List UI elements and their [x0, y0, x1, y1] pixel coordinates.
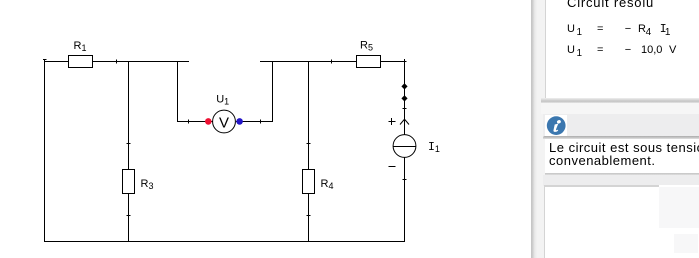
band below panel [541, 103, 699, 114]
wire R4 branch vertical [308, 61, 310, 242]
node tick source bottom lead [403, 179, 407, 181]
voltmeter U1 circle [213, 110, 236, 133]
info icon white square [545, 115, 567, 136]
wire right vertical lower (from source) [404, 157, 406, 241]
sidebar splitter shadow [531, 0, 537, 258]
info icon blue circle [546, 116, 567, 136]
band below info area [543, 175, 699, 186]
wire voltmeter branch right vertical [272, 61, 274, 122]
wire right vertical upper (to source) [404, 61, 406, 135]
node diamond lower on right wire [401, 95, 407, 101]
current source I1 circle [393, 135, 416, 158]
circuit schematic canvas [0, 0, 531, 258]
node tick voltmeter left lead [188, 120, 190, 124]
node tick source top lead [403, 108, 407, 110]
node tick voltmeter right lead [260, 120, 262, 124]
panel title [567, 0, 654, 10]
wire top-left horizontal (node A) [44, 61, 189, 63]
node tick on top-right wire [331, 60, 333, 64]
node tick corner top-left [44, 59, 46, 64]
info icon bar [543, 114, 699, 137]
voltmeter blue terminal dot [236, 118, 243, 125]
node tick R4 bottom lead [307, 215, 311, 217]
current source plus sign [389, 118, 396, 125]
wire voltmeter right horizontal [236, 121, 273, 123]
info text line 2 [549, 154, 656, 167]
current source arrow up [400, 119, 409, 124]
node diamond upper on right wire [401, 83, 407, 89]
node tick corner top-left crossbar [43, 59, 47, 61]
resistor R4 body [303, 170, 315, 194]
wire voltmeter left horizontal [177, 121, 213, 123]
sidebar formula panel [545, 0, 699, 99]
current source I1 bar [393, 146, 416, 148]
info text area [545, 139, 699, 173]
resistor R1 body [69, 56, 93, 68]
node tick R4 top lead [307, 143, 311, 145]
border under info text [545, 173, 699, 175]
wire top-right horizontal (node B) [260, 61, 407, 63]
panel bottom etched edge [541, 98, 699, 103]
info text line 1 [549, 141, 699, 154]
sidebar gutter background [537, 0, 545, 258]
node tick R3 top lead [127, 143, 131, 145]
wire R3 branch vertical [128, 61, 130, 242]
wire voltmeter branch left vertical [177, 61, 179, 122]
gray area right of white box [659, 187, 699, 228]
wire left vertical [44, 61, 46, 242]
divider under icon bar [543, 136, 699, 139]
current source minus sign [389, 166, 396, 168]
bottom white box [544, 185, 699, 258]
node tick R3 bottom lead [127, 215, 131, 217]
bottom white box top border [544, 185, 659, 187]
resistor R3 body [123, 170, 135, 194]
voltmeter red terminal dot [205, 118, 212, 125]
wire bottom horizontal [44, 241, 405, 243]
node tick corner top-right [404, 59, 406, 64]
node tick on top-left wire [116, 60, 118, 64]
resistor R5 body [357, 56, 381, 68]
gray rect bottom right [674, 234, 698, 253]
